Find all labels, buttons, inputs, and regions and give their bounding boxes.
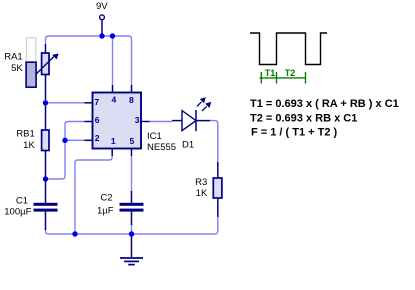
dimension line T1/T2 — [260, 72, 306, 84]
wire: pin 4 drop from top rail — [112, 36, 114, 85]
wire: pin 1 down-left to ground rail — [75, 155, 112, 233]
capacitor C1 — [34, 179, 58, 230]
wire: pin 3 to LED anode — [150, 121, 173, 123]
wire: pin 5 down to C2 — [131, 156, 133, 192]
svg-text:1K: 1K — [196, 188, 208, 199]
svg-text:C2: C2 — [100, 193, 112, 204]
svg-text:F = 1 / ( T1 + T2 ): F = 1 / ( T1 + T2 ) — [251, 127, 338, 139]
svg-text:1: 1 — [111, 136, 116, 146]
power terminal 9V — [100, 15, 105, 34]
junction: pin1 wire on rail — [72, 231, 77, 236]
resistor RB1 — [42, 103, 49, 179]
svg-text:4: 4 — [112, 95, 117, 105]
svg-text:RA1: RA1 — [4, 52, 22, 63]
wire: pin 6 to node — [65, 122, 85, 140]
svg-text:3: 3 — [135, 115, 140, 125]
ground — [120, 234, 143, 265]
svg-text:NE555: NE555 — [147, 142, 176, 153]
pin stub 6 — [85, 121, 93, 123]
svg-text:9V: 9V — [96, 1, 108, 12]
junction: RB1 bottom / C1 top — [43, 176, 48, 181]
svg-text:5: 5 — [130, 136, 135, 146]
svg-text:T2 = 0.693 x RB x C1: T2 = 0.693 x RB x C1 — [250, 112, 357, 124]
pin stub 5 — [131, 149, 133, 157]
svg-text:8: 8 — [129, 95, 134, 105]
svg-text:100µF: 100µF — [4, 206, 31, 217]
junction: 9V on top rail — [99, 33, 104, 38]
svg-text:7: 7 — [94, 97, 99, 107]
wire: top rail from RA1 to pin 8 — [46, 36, 132, 85]
wire: LED cathode to R3 — [209, 121, 218, 163]
svg-text:6: 6 — [95, 115, 100, 125]
potentiometer RA1 — [35, 44, 58, 100]
svg-text:1K: 1K — [23, 140, 35, 151]
pin stub 2 — [85, 139, 93, 141]
svg-text:IC1: IC1 — [147, 131, 162, 142]
resistor R3 — [213, 162, 222, 217]
svg-text:D1: D1 — [182, 139, 194, 150]
op IC1 NE555 body — [93, 93, 142, 149]
pin stub 4 — [112, 85, 114, 93]
wire: bottom ground rail — [46, 216, 218, 234]
junction: RA1/RB1/pin7 node — [43, 100, 48, 105]
svg-text:T1: T1 — [265, 68, 276, 78]
LED arrow 1 — [197, 98, 205, 107]
wire: C2 bottom to rail — [131, 224, 133, 234]
LED D1 — [172, 110, 210, 131]
junction: pin 2/6 node — [62, 138, 67, 143]
wire: node 2/6 down to RB1 bottom junction — [48, 140, 65, 179]
wire: pin 2 to node — [65, 139, 85, 141]
wire: RA1 wiper node to pin 7 — [48, 102, 85, 104]
svg-text:1µF: 1µF — [97, 206, 114, 217]
junction: pin 4 on top rail — [110, 33, 115, 38]
svg-text:2: 2 — [95, 133, 100, 143]
svg-text:T1 = 0.693 x ( RA + RB ) x C1: T1 = 0.693 x ( RA + RB ) x C1 — [250, 98, 399, 110]
potentiometer RA1 slider widget — [26, 38, 36, 87]
svg-text:RB1: RB1 — [16, 128, 34, 139]
pin stub 7 — [85, 102, 93, 104]
junction: C2/ground on rail — [129, 231, 134, 236]
svg-text:T2: T2 — [285, 68, 296, 78]
pin stub 3 — [141, 121, 150, 123]
waveform: output square wave — [250, 33, 327, 65]
pin stub 1 — [111, 149, 113, 157]
svg-text:5K: 5K — [11, 63, 23, 74]
svg-text:C1: C1 — [16, 195, 28, 206]
pin stub 8 — [131, 85, 133, 93]
svg-text:R3: R3 — [195, 177, 207, 188]
capacitor C2 — [120, 191, 144, 225]
LED arrow 2 — [202, 102, 211, 111]
